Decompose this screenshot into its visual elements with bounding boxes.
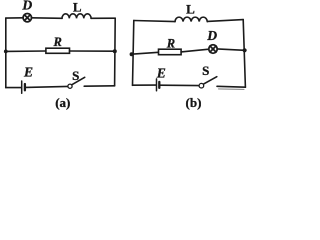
wire: circuit (b) left edge	[133, 20, 134, 85]
svg-text:S: S	[72, 68, 79, 83]
svg-text:E: E	[156, 66, 166, 81]
junction dot (a) right	[113, 49, 117, 53]
inductor L (a)	[62, 14, 91, 18]
svg-text:L: L	[186, 2, 195, 17]
wire: (a) top, inductor to right corner	[91, 17, 115, 19]
wire: (b) bottom ghost line (print double-strike)	[219, 88, 245, 91]
wire: (a) middle, resistor to right	[70, 50, 115, 52]
switch S (a)	[68, 77, 85, 88]
svg-text:L: L	[73, 0, 82, 14]
lamp D (b)	[209, 45, 217, 53]
inductor L (b)	[175, 17, 207, 21]
wire: (b) middle, left to resistor	[131, 52, 158, 54]
junction dot (b) left	[130, 52, 134, 56]
svg-text:D: D	[206, 28, 217, 43]
battery E (b)	[157, 79, 160, 91]
svg-text:S: S	[202, 63, 209, 78]
wire: (b) top, inductor to right corner	[207, 20, 243, 22]
wire: (a) bottom, switch to right corner	[84, 85, 114, 87]
junction dot (a) left	[4, 50, 8, 54]
svg-text:(a): (a)	[55, 95, 70, 110]
wire: (a) top, lamp to inductor	[31, 17, 62, 20]
wire: circuit (a) left edge	[5, 18, 7, 88]
wire: (a) bottom, left corner to battery	[6, 87, 21, 89]
svg-text:(b): (b)	[186, 95, 202, 110]
switch S (b)	[199, 77, 217, 88]
lamp D (a)	[23, 14, 31, 22]
resistor R (a)	[46, 48, 70, 53]
wire: (b) bottom, left corner to battery	[133, 84, 156, 86]
svg-text:E: E	[23, 65, 33, 80]
battery E (a)	[22, 81, 25, 93]
resistor R (b)	[159, 49, 182, 55]
wire: (a) top, left corner to lamp	[6, 17, 23, 19]
svg-text:R: R	[53, 35, 62, 49]
wire: (b) bottom, switch to right corner	[217, 85, 245, 88]
wire: (a) bottom, battery to switch	[26, 86, 68, 87]
wire: (b) middle, resistor to lamp	[181, 49, 209, 52]
wire: circuit (a) right edge	[114, 18, 117, 86]
svg-text:R: R	[166, 37, 175, 51]
wire: (b) bottom, battery to switch	[160, 84, 199, 86]
wire: (b) middle, lamp to right	[217, 49, 244, 50]
wire: (b) top, left corner to inductor	[134, 21, 175, 22]
wire: circuit (b) right edge	[243, 20, 245, 88]
svg-text:D: D	[21, 0, 32, 13]
junction dot (b) right	[243, 48, 247, 52]
wire: (a) middle, left to resistor	[6, 50, 46, 52]
